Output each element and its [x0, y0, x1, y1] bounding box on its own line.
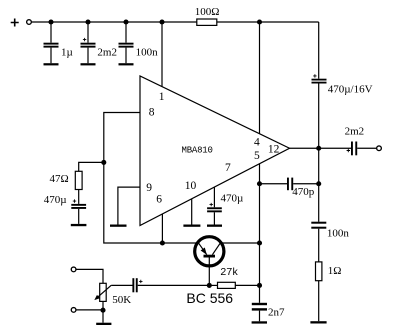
wire C11 to base rail: [138, 284, 210, 286]
capacitor C4 470µ/16V: [312, 74, 373, 95]
junction L (base): [207, 283, 212, 288]
ground (C6): [207, 225, 222, 227]
junction J (pin 6 / bottom rail): [160, 240, 165, 245]
ground (1Ω): [310, 321, 326, 323]
wire pin 10 to ground: [191, 199, 193, 225]
wire 1Ω to ground: [318, 281, 320, 322]
svg-text:470µ/16V: 470µ/16V: [328, 84, 373, 96]
junction G (470p left): [257, 181, 262, 186]
transistor Q1 BC556: [186, 237, 233, 306]
node V+ label: [11, 19, 19, 27]
wire collector to right vertical: [222, 242, 260, 244]
capacitor C11 (input coupling): [132, 278, 142, 292]
svg-text:6: 6: [156, 193, 162, 205]
wire pin 8 down left side to bottom rail: [104, 113, 198, 244]
wire pin 1: [161, 22, 163, 87]
wire pin 5: [259, 164, 261, 184]
resistor R2 47Ω: [50, 171, 83, 189]
wire C6 to ground: [213, 212, 215, 224]
wire R2 to C5: [78, 190, 80, 204]
wire wiper to C10: [111, 284, 133, 286]
svg-text:5: 5: [254, 150, 260, 162]
svg-text:12: 12: [268, 144, 280, 156]
potentiometer RV1 50K: [94, 283, 131, 306]
svg-text:MBA810: MBA810: [182, 145, 213, 155]
wire input bottom: [76, 309, 103, 311]
svg-text:50K: 50K: [112, 294, 131, 306]
input terminal V+: [27, 20, 32, 25]
svg-text:100n: 100n: [327, 227, 350, 239]
wire output (pin 12): [290, 147, 352, 149]
capacitor C2 2m2: [81, 22, 117, 63]
junction I (output / bootstrap): [316, 146, 321, 151]
wire C5 to ground: [78, 209, 80, 224]
junction F (feedback tap): [101, 160, 106, 165]
input terminal top: [71, 267, 76, 272]
ground (2n7): [252, 321, 267, 323]
capacitor C9 100n (right): [311, 222, 349, 240]
wire to output terminal: [357, 147, 376, 149]
ground (C2): [81, 63, 96, 65]
capacitor C5 470µ: [44, 194, 86, 209]
svg-text:2m2: 2m2: [97, 46, 117, 58]
svg-text:1µ: 1µ: [61, 47, 73, 59]
junction A (C1): [48, 19, 53, 24]
svg-text:2n7: 2n7: [268, 307, 285, 319]
wire base to 27k: [209, 284, 217, 286]
svg-text:470µ: 470µ: [221, 192, 244, 204]
svg-text:47Ω: 47Ω: [50, 173, 69, 185]
wire 100n to 1Ω: [318, 229, 320, 262]
svg-text:2m2: 2m2: [345, 125, 365, 137]
junction C (C3): [123, 19, 128, 24]
wire pot bottom: [102, 301, 104, 310]
wire top rail right: [217, 21, 319, 23]
ground (pin 10): [183, 225, 200, 227]
resistor R4 27k: [218, 266, 239, 288]
svg-text:470µ: 470µ: [44, 194, 67, 206]
wire to ground: [102, 310, 104, 323]
ground (C5): [71, 224, 87, 226]
input terminal bottom: [71, 308, 76, 313]
wire pin 6: [161, 214, 163, 243]
junction D (pin1): [159, 19, 164, 24]
ground (input): [96, 323, 111, 325]
junction N (input bottom): [100, 308, 105, 313]
svg-text:27k: 27k: [220, 266, 238, 278]
wire feedback branch: [79, 162, 104, 171]
svg-text:1Ω: 1Ω: [328, 265, 342, 277]
op-amp U1 MBA810: [140, 76, 290, 226]
svg-text:4: 4: [254, 137, 260, 149]
wire 470p right: [293, 183, 319, 185]
svg-text:100n: 100n: [136, 47, 159, 59]
capacitor C10 2n7: [252, 303, 285, 319]
svg-text:100Ω: 100Ω: [195, 6, 220, 18]
svg-text:1: 1: [159, 91, 165, 103]
junction E (pin4): [257, 19, 262, 24]
capacitor C8 2m2 (output): [345, 125, 365, 155]
svg-text:470p: 470p: [292, 186, 315, 198]
wire 27k to right vertical: [235, 284, 259, 286]
ground (pin 9): [110, 225, 127, 227]
wire pin 4: [259, 22, 261, 134]
capacitor C7 470p: [287, 178, 315, 198]
wire pin 9 to ground: [118, 187, 140, 224]
wire 2n7 to ground: [259, 311, 261, 322]
svg-text:7: 7: [225, 162, 231, 174]
wire right vertical (C4 to 100n): [318, 84, 320, 222]
capacitor C3 100n: [119, 22, 159, 63]
ground (C1): [44, 63, 59, 65]
output terminal: [377, 146, 382, 151]
svg-text:BC 556: BC 556: [186, 290, 233, 306]
capacitor C6 470µ (pin 7): [207, 187, 243, 212]
resistor R1 100Ω: [195, 6, 220, 26]
junction M (27k right): [257, 283, 262, 288]
wire right vertical (470p to 2n7): [259, 184, 261, 303]
wire right drop to C4: [318, 22, 320, 79]
resistor R3 1Ω: [316, 262, 342, 281]
junction H (470p right): [316, 181, 321, 186]
wire 470p left: [260, 183, 288, 185]
junction K (collector): [257, 240, 262, 245]
wire input top to pot: [76, 269, 103, 283]
svg-text:9: 9: [146, 182, 152, 194]
capacitor C1 1µ: [44, 22, 73, 63]
svg-text:10: 10: [185, 180, 197, 192]
svg-text:8: 8: [149, 107, 155, 119]
ground (C3): [119, 63, 134, 65]
wire top rail left: [32, 21, 197, 23]
junction B (C2): [85, 19, 90, 24]
